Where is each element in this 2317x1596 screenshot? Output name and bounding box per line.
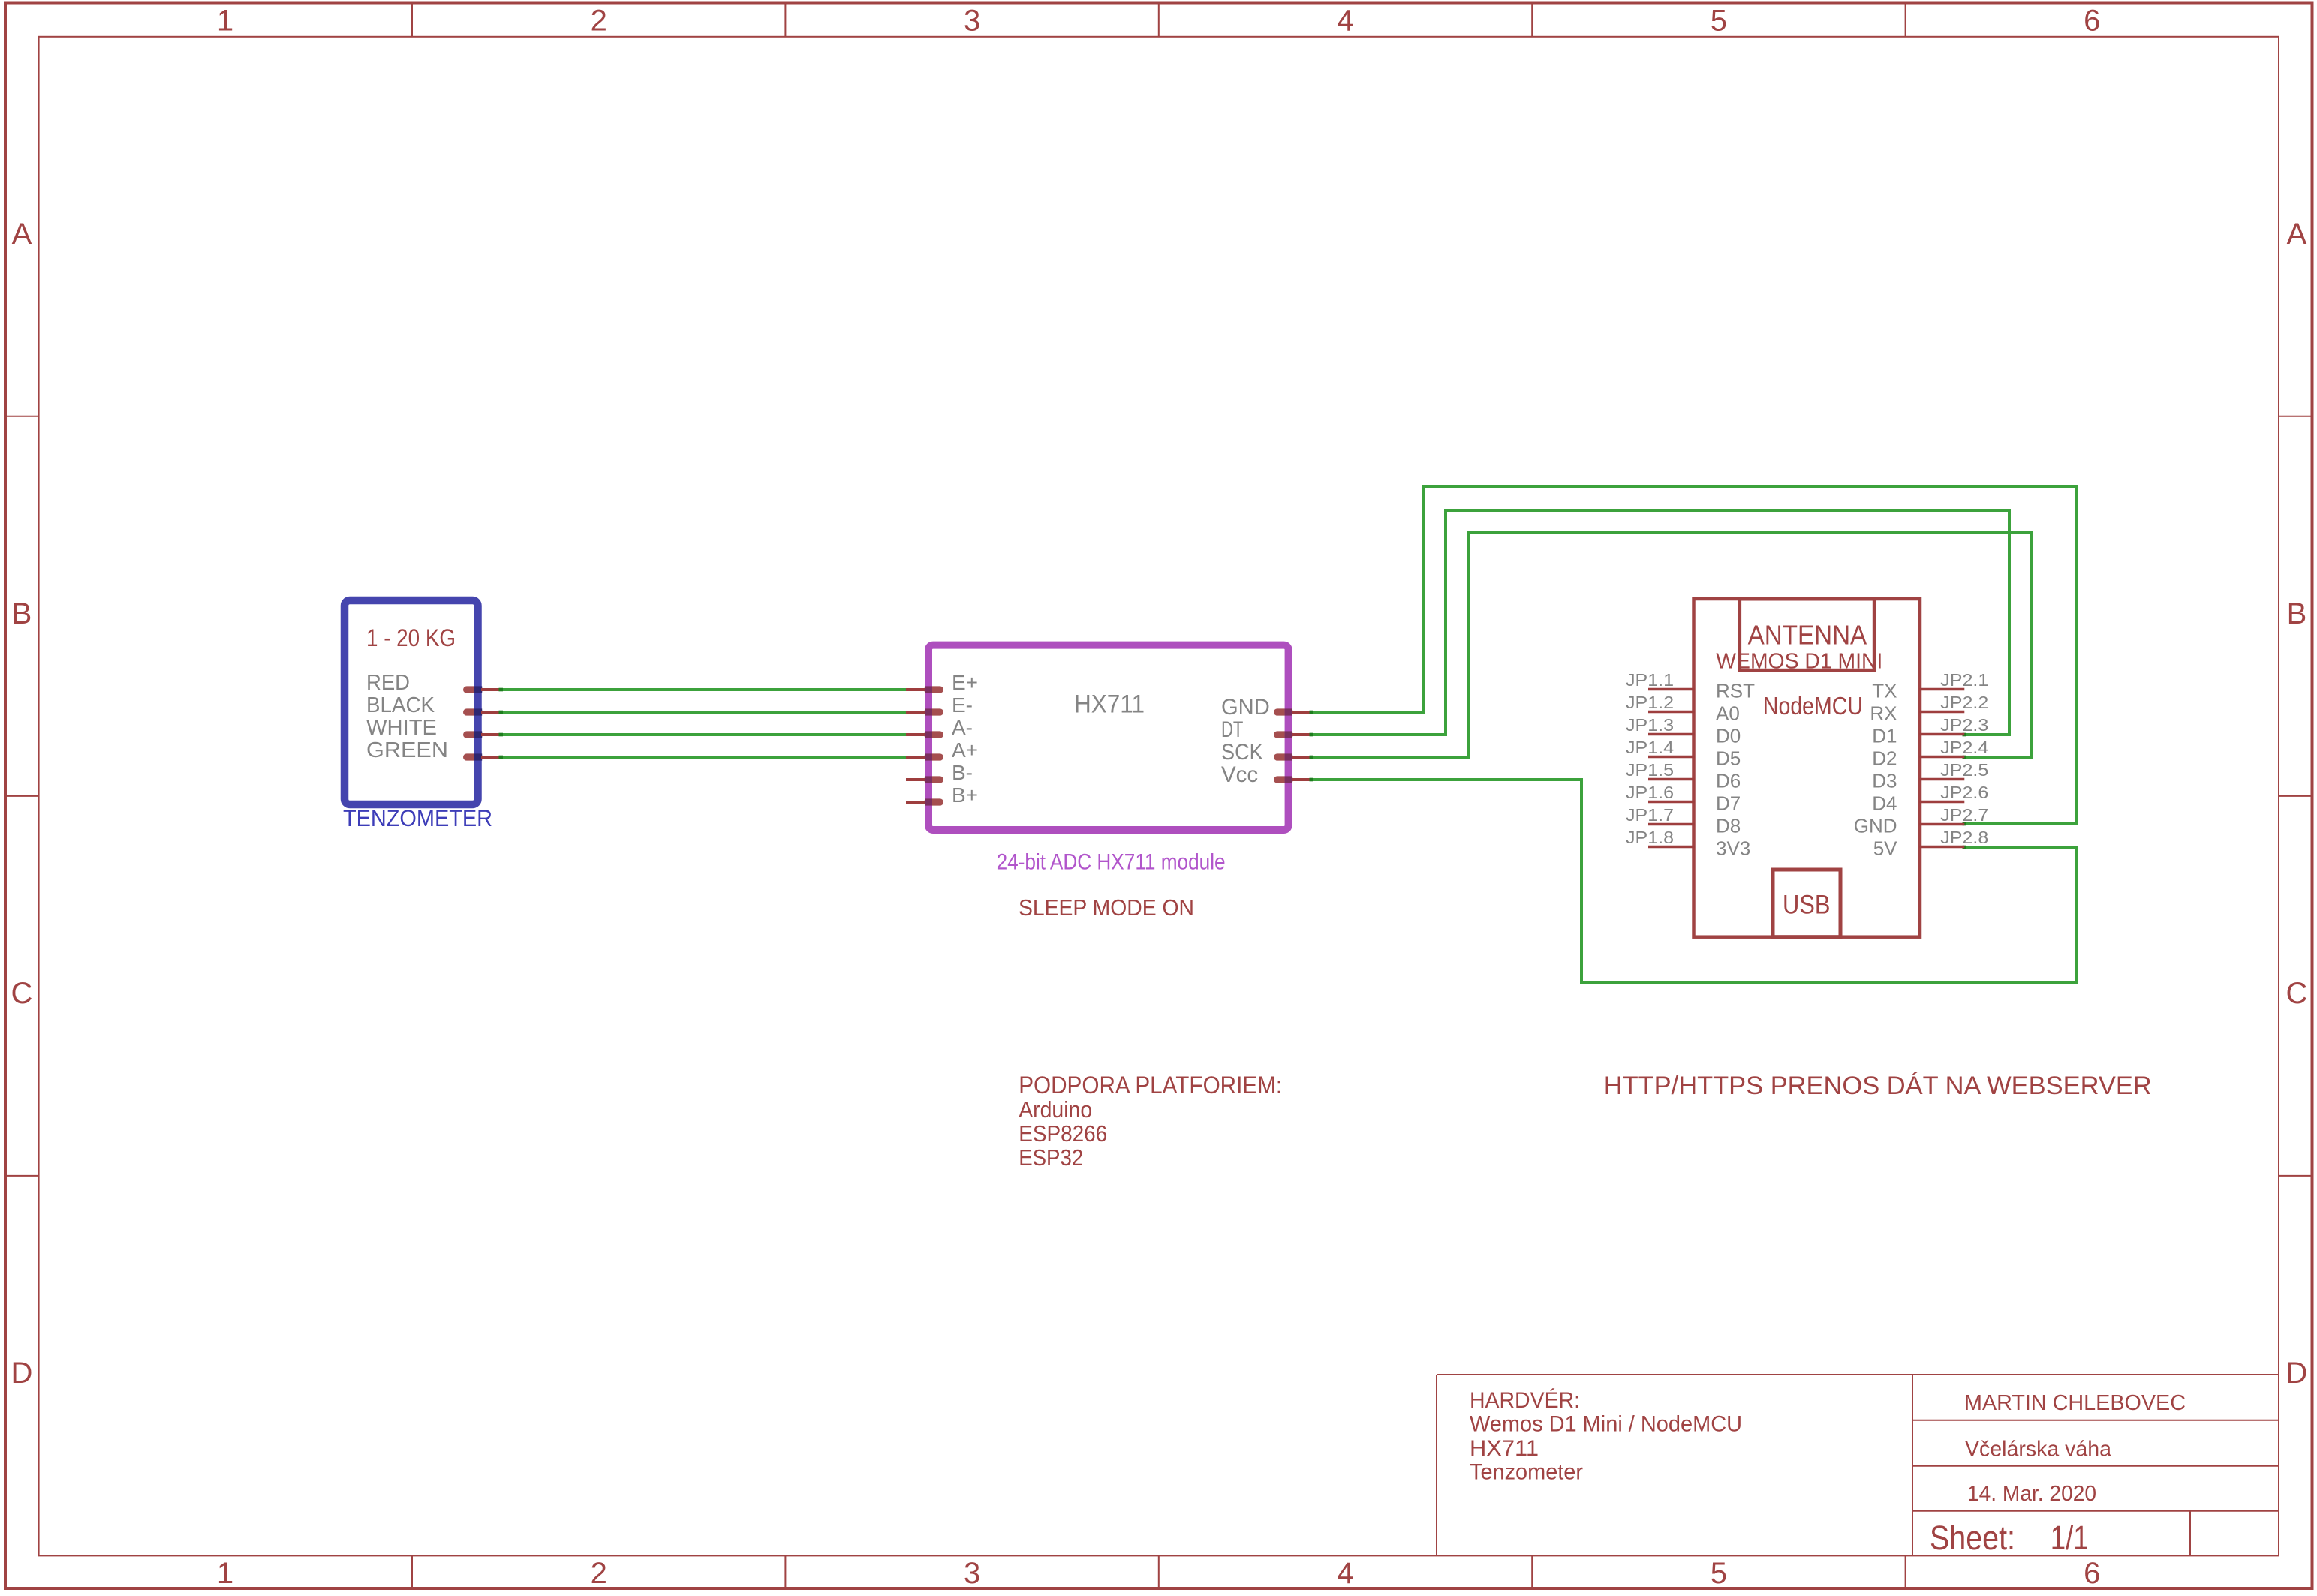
svg-text:3V3: 3V3 [1716,837,1750,860]
svg-text:GND: GND [1854,815,1897,837]
svg-text:JP2.4: JP2.4 [1940,738,1988,757]
svg-text:1 - 20 KG: 1 - 20 KG [366,624,456,651]
svg-text:A+: A+ [952,738,978,762]
svg-text:JP2.2: JP2.2 [1940,693,1988,712]
svg-text:NodeMCU: NodeMCU [1763,692,1863,720]
svg-text:ANTENNA: ANTENNA [1748,620,1867,651]
svg-text:Wemos D1 Mini / NodeMCU: Wemos D1 Mini / NodeMCU [1470,1412,1742,1437]
svg-text:D: D [11,1357,33,1390]
svg-text:RST: RST [1716,680,1755,702]
svg-text:3: 3 [964,1557,980,1590]
svg-text:DT: DT [1221,717,1243,742]
svg-text:JP2.6: JP2.6 [1940,783,1988,802]
svg-text:WHITE: WHITE [366,716,437,740]
svg-text:C: C [2286,977,2308,1010]
svg-text:JP2.1: JP2.1 [1940,670,1988,690]
svg-text:Sheet:: Sheet: [1930,1519,2015,1557]
svg-text:B: B [2287,597,2307,630]
svg-text:B: B [12,597,32,630]
svg-text:1/1: 1/1 [2051,1519,2089,1557]
svg-text:HX711: HX711 [1470,1436,1539,1461]
svg-text:SCK: SCK [1221,740,1263,765]
svg-text:JP1.4: JP1.4 [1626,738,1674,757]
svg-text:SLEEP MODE ON: SLEEP MODE ON [1019,894,1194,921]
svg-text:5V: 5V [1873,837,1897,860]
svg-text:TENZOMETER: TENZOMETER [343,804,492,831]
svg-text:B+: B+ [952,783,978,807]
svg-text:A: A [2287,218,2307,251]
svg-text:Arduino: Arduino [1019,1096,1092,1123]
svg-text:D6: D6 [1716,770,1741,792]
svg-text:2: 2 [591,5,607,38]
svg-text:14. Mar. 2020: 14. Mar. 2020 [1967,1482,2096,1506]
svg-text:D2: D2 [1872,747,1897,770]
svg-text:MARTIN CHLEBOVEC: MARTIN CHLEBOVEC [1964,1391,2186,1415]
svg-text:A: A [12,218,32,251]
svg-text:JP2.3: JP2.3 [1940,715,1988,735]
svg-text:JP1.5: JP1.5 [1626,760,1674,780]
svg-text:Tenzometer: Tenzometer [1470,1460,1583,1485]
svg-text:Vcc: Vcc [1221,762,1258,787]
svg-text:A0: A0 [1716,702,1740,725]
svg-text:USB: USB [1783,890,1831,919]
svg-text:JP1.3: JP1.3 [1626,715,1674,735]
svg-text:3: 3 [964,5,980,38]
svg-text:B-: B- [952,761,973,784]
svg-text:JP1.2: JP1.2 [1626,693,1674,712]
svg-text:C: C [11,977,33,1010]
svg-text:E-: E- [952,693,973,717]
svg-text:D8: D8 [1716,815,1741,837]
svg-text:D5: D5 [1716,747,1741,770]
svg-text:PODPORA PLATFORIEM:: PODPORA PLATFORIEM: [1019,1072,1282,1099]
svg-text:RX: RX [1870,702,1897,725]
svg-text:RED: RED [366,671,410,695]
svg-text:4: 4 [1337,5,1353,38]
svg-text:WEMOS D1 MINI: WEMOS D1 MINI [1716,649,1882,673]
svg-text:6: 6 [2084,1557,2100,1590]
svg-text:JP2.5: JP2.5 [1940,760,1988,780]
svg-text:2: 2 [591,1557,607,1590]
svg-text:JP2.7: JP2.7 [1940,805,1988,825]
svg-text:4: 4 [1337,1557,1353,1590]
svg-text:JP1.6: JP1.6 [1626,783,1674,802]
svg-text:1: 1 [217,5,233,38]
svg-text:Včelárska váha: Včelárska váha [1965,1438,2112,1462]
svg-text:D: D [2286,1357,2308,1390]
svg-text:HTTP/HTTPS PRENOS DÁT NA WEBSE: HTTP/HTTPS PRENOS DÁT NA WEBSERVER [1604,1071,2152,1100]
svg-text:A-: A- [952,716,973,739]
svg-text:JP1.1: JP1.1 [1626,670,1674,690]
svg-text:D7: D7 [1716,792,1741,815]
svg-text:D1: D1 [1872,725,1897,747]
svg-text:ESP8266: ESP8266 [1019,1120,1107,1147]
svg-text:JP1.8: JP1.8 [1626,828,1674,847]
svg-text:1: 1 [217,1557,233,1590]
svg-text:GREEN: GREEN [366,738,448,762]
svg-text:JP2.8: JP2.8 [1940,828,1988,847]
svg-text:ESP32: ESP32 [1019,1144,1083,1171]
svg-text:D0: D0 [1716,725,1741,747]
svg-text:HARDVÉR:: HARDVÉR: [1470,1388,1580,1413]
svg-text:E+: E+ [952,671,978,694]
svg-text:JP1.7: JP1.7 [1626,805,1674,825]
svg-text:TX: TX [1872,680,1897,702]
svg-text:D4: D4 [1872,792,1897,815]
svg-text:5: 5 [1711,1557,1727,1590]
svg-text:BLACK: BLACK [366,693,435,717]
svg-text:D3: D3 [1872,770,1897,792]
svg-text:GND: GND [1221,695,1270,720]
svg-text:HX711: HX711 [1074,690,1145,718]
svg-text:6: 6 [2084,5,2100,38]
svg-text:24-bit ADC HX711 module: 24-bit ADC HX711 module [997,849,1226,874]
svg-text:5: 5 [1711,5,1727,38]
